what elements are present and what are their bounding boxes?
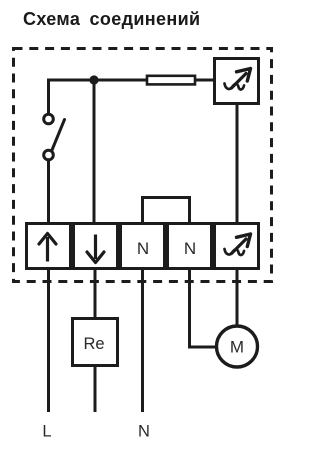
terminal 3 (N) [121,224,165,269]
switch S1 [44,114,65,160]
svg-text:L: L [42,423,51,441]
terminal 1 (up arrow) [27,224,71,269]
wire: switch to terminal 1 [47,160,50,222]
wire: top bus junction to resistor [94,79,147,82]
title: Схема соединений [23,9,200,30]
wire: terminal 2 to relay [94,269,97,319]
wire: terminal 5 to motor top [236,269,239,327]
wire: junction down to terminal 2 [93,80,96,222]
wire: terminal 3 to N [141,269,144,413]
relay Re [73,319,118,366]
motor M [217,326,258,367]
wire: switch to top bus (corner) [49,80,95,114]
wire: terminal 1 to L [47,269,50,413]
terminal 5 (adjust arrow) [215,224,259,269]
terminal 4 (N) [168,224,212,269]
svg-text:N: N [138,423,150,441]
actuator U1 (box with adjust arrow, top right) [215,59,259,104]
bracket linking N terminals [143,198,190,223]
wire: resistor to actuator box [195,79,214,82]
node: junction on top bus [89,75,98,84]
device outline (dashed enclosure) [14,49,272,282]
wire: actuator to terminal 5 [236,104,239,223]
resistor R1 [147,76,195,85]
svg-text:M: M [230,338,244,357]
svg-text:N: N [184,239,196,258]
wire: relay down stub [94,366,97,413]
svg-text:N: N [137,239,149,258]
wire: terminal 4 to motor (bend) [190,269,217,348]
terminal 2 (down arrow) [74,224,118,269]
svg-text:Re: Re [83,335,104,353]
